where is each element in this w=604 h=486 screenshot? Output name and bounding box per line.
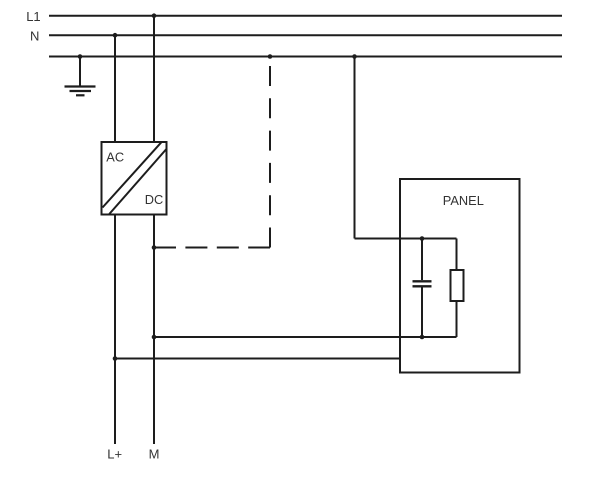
resistor R1 <box>451 239 464 338</box>
wire dashed control link vertical <box>269 57 271 248</box>
junction M dashed link <box>152 245 157 250</box>
junction capacitor top <box>420 236 425 241</box>
svg-text:N: N <box>30 28 39 43</box>
wire PE drop to ground <box>79 57 81 87</box>
wire L1 bus <box>49 15 562 17</box>
wire L+ to panel <box>115 358 400 360</box>
svg-text:PANEL: PANEL <box>443 193 484 208</box>
wire converter L+ output <box>114 215 116 445</box>
wire N to converter input <box>114 35 116 142</box>
wire PE drop to panel <box>354 57 356 239</box>
junction PE dashed link <box>268 54 273 59</box>
capacitor C1 <box>413 239 432 338</box>
panel box <box>400 179 520 373</box>
junction capacitor bottom <box>420 335 425 340</box>
svg-text:DC: DC <box>145 192 163 207</box>
wire converter M output <box>153 215 155 445</box>
svg-text:M: M <box>149 447 160 462</box>
wire N bus <box>49 34 562 36</box>
svg-text:L1: L1 <box>26 9 40 24</box>
junction PE panel drop <box>352 54 357 59</box>
wire panel top rail <box>355 238 457 240</box>
ground symbol PE <box>65 87 96 96</box>
power supply U1 AC/DC converter box <box>102 142 167 215</box>
junction M bottom rail <box>152 335 157 340</box>
svg-text:AC: AC <box>106 150 124 165</box>
wire panel bottom rail to M <box>154 336 457 338</box>
junction N feed <box>113 33 118 38</box>
junction L1 feed <box>152 13 157 18</box>
junction L+ rail <box>113 356 118 361</box>
wire dashed control link horizontal <box>154 247 270 249</box>
svg-text:L+: L+ <box>107 447 122 462</box>
wire PE bus <box>49 56 562 58</box>
wire L1 to converter input <box>153 16 155 142</box>
junction PE ground <box>78 54 83 59</box>
